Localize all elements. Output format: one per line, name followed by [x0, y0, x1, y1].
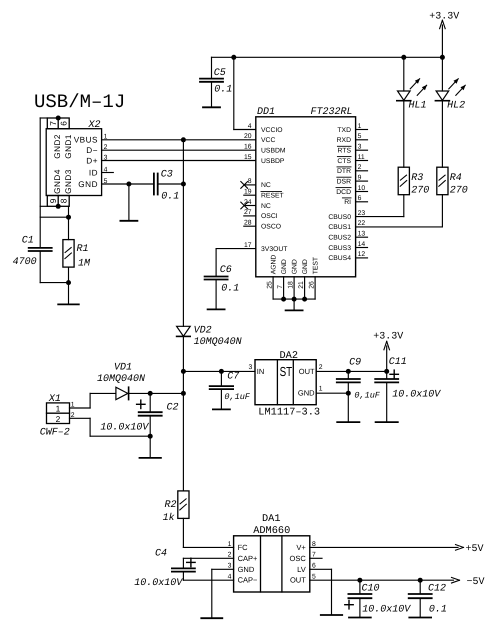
svg-text:USB/M–1J: USB/M–1J: [34, 91, 125, 113]
svg-text:0.1: 0.1: [221, 283, 239, 294]
wire C1 bottom: [39, 251, 41, 282]
svg-text:VCC: VCC: [261, 137, 275, 144]
svg-text:DA1: DA1: [262, 513, 281, 525]
wire C7 bottom: [220, 389, 222, 409]
wire C3 right to VBUS net: [158, 183, 184, 185]
wire HL2 to R4: [441, 101, 443, 168]
junction C9 DA2-GND: [346, 391, 351, 396]
svg-text:C5: C5: [214, 68, 226, 79]
svg-text:DA2: DA2: [280, 350, 299, 362]
svg-text:1: 1: [56, 404, 61, 414]
svg-text:GND: GND: [302, 259, 309, 274]
stub pin 1 TXD: [356, 129, 368, 131]
wire C4 bottom to CAP-: [182, 572, 184, 580]
junction VD1 C2: [148, 391, 153, 396]
junction pins 7-6 shell: [56, 116, 61, 121]
capacitor C9: [337, 378, 360, 380]
svg-text:270: 270: [450, 186, 468, 197]
svg-text:TXD: TXD: [337, 127, 351, 134]
svg-text:V+: V+: [296, 543, 306, 552]
svg-text:3: 3: [249, 364, 253, 371]
LED HL1 cathode bar: [397, 100, 411, 102]
svg-text:C12: C12: [428, 583, 446, 594]
wire GND drop to ground: [128, 184, 130, 221]
wire main node to R2: [182, 393, 184, 491]
svg-text:0,1uF: 0,1uF: [224, 392, 250, 402]
svg-text:GND4: GND4: [53, 169, 62, 194]
svg-text:3: 3: [228, 563, 232, 570]
svg-text:GND: GND: [78, 180, 98, 189]
svg-text:C2: C2: [167, 402, 179, 413]
capacitor C10 plus: [345, 604, 353, 606]
junction OUT C11: [384, 369, 389, 374]
LED HL2 cathode bar: [435, 100, 449, 102]
junction rail HL1: [401, 55, 406, 60]
svg-text:DTR: DTR: [337, 168, 351, 175]
svg-text:GND3: GND3: [64, 169, 73, 194]
svg-text:3: 3: [358, 144, 362, 151]
wire V+ to +5V: [310, 546, 458, 548]
svg-text:RXD: RXD: [337, 137, 351, 144]
svg-text:28: 28: [244, 220, 252, 227]
wire rail to HL1: [403, 57, 405, 91]
wire top rail +3.3V: [212, 56, 443, 58]
svg-text:5: 5: [312, 574, 316, 581]
wire shield horizontal: [40, 216, 68, 218]
capacitor C2: [139, 411, 162, 413]
capacitor C11 top lead: [386, 371, 388, 378]
junction GND C3 drop: [126, 182, 131, 187]
wire C5 bottom: [211, 82, 213, 107]
resistor R1: [63, 240, 74, 268]
diode VD2: [177, 326, 191, 336]
junction OUT C10: [357, 578, 362, 583]
svg-text:10.0x10V: 10.0x10V: [100, 423, 149, 434]
LED HL1 light arrows: [410, 79, 419, 89]
IC DA2 body: [255, 360, 316, 405]
junction R1 C1: [66, 280, 71, 285]
junction OUT C9: [346, 369, 351, 374]
svg-text:12: 12: [358, 251, 366, 258]
svg-text:NC: NC: [261, 203, 271, 210]
svg-text:27: 27: [244, 209, 252, 216]
svg-text:6: 6: [312, 563, 316, 570]
svg-text:GND: GND: [281, 259, 288, 274]
svg-text:FT232RL: FT232RL: [311, 107, 353, 118]
wire C10 bottom: [359, 599, 361, 618]
junction rail HL2: [440, 55, 445, 60]
ground LV: [321, 614, 342, 616]
svg-text:10.0x10V: 10.0x10V: [134, 578, 183, 589]
ground C5: [203, 106, 220, 108]
svg-text:D+: D+: [86, 156, 98, 165]
stub bottom pin 25: [272, 277, 274, 299]
capacitor C10: [348, 593, 371, 595]
svg-text:1k: 1k: [163, 512, 175, 524]
wire R2 to FC: [182, 518, 184, 547]
ground C9: [337, 421, 359, 423]
svg-text:2: 2: [56, 414, 61, 424]
stub pin 13 CBUS2: [356, 236, 368, 238]
svg-text:ST: ST: [280, 364, 293, 379]
svg-text:R4: R4: [450, 173, 462, 184]
svg-text:C3: C3: [161, 169, 173, 180]
svg-text:LM1117–3.3: LM1117–3.3: [258, 407, 320, 419]
svg-text:20: 20: [244, 133, 252, 140]
power +3.3V arrow mid: [386, 346, 388, 371]
svg-text:2: 2: [319, 364, 323, 371]
connector X1 body: [47, 403, 70, 424]
svg-text:CBUS1: CBUS1: [328, 224, 351, 231]
resistor R2: [178, 491, 189, 519]
wire collector to ground: [293, 299, 295, 310]
svg-text:RI: RI: [344, 199, 351, 206]
svg-text:C9: C9: [349, 358, 361, 369]
capacitor C7 top lead: [220, 371, 222, 385]
connector X2 shell left wire: [39, 118, 41, 248]
stub bottom pin 18: [293, 277, 295, 299]
svg-text:2: 2: [358, 164, 362, 171]
wire LV to ground: [310, 568, 332, 570]
svg-text:26: 26: [308, 281, 315, 289]
wire C2 bottom: [149, 416, 151, 458]
svg-text:ID: ID: [89, 168, 98, 177]
svg-text:CAP+: CAP+: [238, 554, 258, 563]
capacitor C2 plus: [137, 403, 145, 405]
power +3.3V arrow top: [441, 25, 443, 57]
svg-text:21: 21: [298, 281, 305, 289]
diode VD1: [116, 387, 128, 399]
stub bottom pin 7: [283, 277, 285, 299]
ground C10: [349, 617, 371, 619]
svg-text:+3.3V: +3.3V: [373, 331, 403, 342]
svg-text:23: 23: [358, 210, 366, 217]
svg-text:1M: 1M: [78, 258, 91, 269]
svg-text:13: 13: [358, 231, 366, 238]
junction shield R1: [66, 215, 71, 220]
svg-text:1: 1: [358, 123, 362, 130]
svg-text:HL2: HL2: [447, 101, 465, 112]
svg-text:−5V: −5V: [467, 577, 485, 588]
svg-text:DD1: DD1: [257, 107, 275, 118]
junction main node VD1: [181, 391, 186, 396]
IC DD1 FT232RL body: [256, 117, 356, 277]
wire VBUS net vertical down to VD2: [182, 140, 184, 326]
svg-text:0.1: 0.1: [214, 85, 232, 96]
stub pin 6 RI: [356, 201, 368, 203]
svg-text:10.0x10V: 10.0x10V: [392, 390, 441, 401]
junction pins 9-8 shell: [56, 204, 61, 209]
svg-text:10MQ040N: 10MQ040N: [97, 374, 145, 385]
wire rail to HL2: [441, 57, 443, 91]
wire CAP+ to C4: [183, 557, 233, 559]
wire ID stub: [102, 172, 114, 174]
svg-text:TEST: TEST: [313, 257, 320, 274]
wire OUT to -5V: [310, 579, 454, 581]
svg-text:RTS: RTS: [338, 148, 352, 155]
svg-text:C7: C7: [227, 372, 239, 383]
capacitor C4 plus: [187, 561, 195, 563]
capacitor C2 top lead: [149, 393, 151, 412]
junction gnd 21: [302, 297, 307, 302]
wire R1 bottom to ground: [68, 267, 70, 304]
junction C3 VBUS-net: [181, 182, 186, 187]
wire 3V3OUT: [216, 248, 256, 250]
svg-text:15: 15: [244, 154, 252, 161]
svg-text:+5V: +5V: [466, 544, 484, 555]
svg-text:4: 4: [248, 123, 252, 130]
svg-text:CTS: CTS: [337, 158, 351, 165]
ground GND pin5: [120, 220, 137, 222]
stub bottom pin 26: [314, 277, 316, 299]
svg-text:R2: R2: [164, 500, 176, 511]
capacitor C11 plus: [390, 373, 398, 375]
svg-text:7: 7: [312, 552, 316, 559]
stub pin 10 DCD: [356, 191, 368, 193]
svg-text:CBUS4: CBUS4: [328, 255, 351, 262]
junction VBUS vertical: [181, 137, 186, 142]
svg-text:4700: 4700: [13, 257, 37, 268]
svg-text:D−: D−: [86, 146, 98, 155]
wire GND pin5: [102, 183, 154, 185]
stub OSC pin7: [310, 557, 322, 559]
resistor R4: [437, 167, 448, 195]
junction IN node: [181, 369, 186, 374]
svg-text:IN: IN: [257, 367, 265, 376]
stub pin 19 RESET: [244, 194, 256, 196]
ground X2 network: [58, 303, 79, 305]
svg-text:CBUS3: CBUS3: [328, 245, 351, 252]
connector X2 pin7/6 box: [47, 118, 69, 129]
svg-text:GND2: GND2: [53, 134, 62, 159]
svg-text:9: 9: [358, 174, 362, 181]
svg-text:DSR: DSR: [337, 178, 351, 185]
svg-text:9: 9: [48, 198, 58, 203]
svg-text:GND1: GND1: [64, 134, 73, 159]
wire C12 bottom: [419, 599, 421, 618]
svg-text:0.1: 0.1: [161, 192, 179, 203]
stub pin NC with no-connect X: [244, 184, 256, 186]
svg-text:DCD: DCD: [336, 189, 351, 196]
capacitor C11: [375, 378, 398, 380]
svg-text:CBUS2: CBUS2: [328, 235, 351, 242]
junction gnd 7: [281, 297, 286, 302]
capacitor C5: [200, 78, 223, 80]
svg-text:0.1: 0.1: [429, 605, 447, 616]
svg-text:CBUS0: CBUS0: [328, 214, 351, 221]
ground DD1: [286, 309, 303, 311]
IC DA1 body: [234, 536, 310, 592]
ground C7: [213, 408, 230, 410]
svg-text:GND: GND: [298, 389, 315, 398]
svg-text:10.0x10V: 10.0x10V: [362, 605, 411, 616]
capacitor C10 top lead: [359, 580, 361, 594]
stub pin 5 RXD: [356, 139, 368, 141]
svg-text:8: 8: [59, 198, 69, 203]
connector X2 shell bottom wire: [40, 205, 47, 207]
svg-text:NC: NC: [261, 182, 271, 189]
svg-text:+3.3V: +3.3V: [429, 12, 459, 23]
wire C11 bottom to ground: [386, 383, 388, 422]
svg-text:OSCO: OSCO: [261, 224, 281, 231]
svg-text:8: 8: [248, 178, 252, 185]
resistor R3: [398, 167, 409, 195]
junction IN C7: [219, 369, 224, 374]
stub pin 2 DTR: [356, 170, 368, 172]
svg-text:VCCIO: VCCIO: [261, 127, 283, 134]
capacitor C6: [205, 276, 228, 278]
ground C12: [409, 617, 431, 619]
LED HL1 triangle: [398, 91, 411, 100]
wire R3 to CBUS0: [403, 195, 405, 217]
capacitor C7: [210, 385, 233, 387]
wire shield to R1 node: [68, 206, 70, 239]
svg-text:19: 19: [244, 189, 252, 196]
svg-text:C6: C6: [220, 265, 232, 276]
stub pin 28 OSCO: [244, 225, 256, 227]
svg-text:1: 1: [319, 386, 323, 393]
svg-text:7: 7: [48, 121, 58, 126]
svg-text:LV: LV: [297, 565, 306, 574]
ground C2: [140, 457, 161, 459]
svg-text:8: 8: [312, 541, 316, 548]
junction OUT C12: [418, 578, 423, 583]
stub bottom pin 21: [304, 277, 306, 299]
wire R4 to CBUS1: [441, 195, 443, 227]
ground C11: [376, 421, 398, 423]
svg-text:VD1: VD1: [114, 362, 132, 373]
wire X1 pin1 to VD1: [70, 407, 91, 409]
wire D- to USBDM: [102, 149, 256, 151]
wire DA2 GND: [316, 392, 348, 394]
svg-text:25: 25: [266, 281, 273, 289]
wire X1 pin2 loop: [70, 417, 91, 419]
svg-text:5: 5: [358, 133, 362, 140]
svg-text:FC: FC: [238, 543, 249, 552]
wire VCCIO to chip: [234, 129, 256, 131]
svg-text:HL1: HL1: [409, 101, 427, 112]
junction top rail VCCIO: [231, 55, 236, 60]
svg-text:7: 7: [277, 285, 284, 289]
stub pin 3 RTS: [356, 149, 368, 151]
power -5V arrow: [452, 577, 460, 580]
svg-text:16: 16: [244, 144, 252, 151]
svg-text:R1: R1: [77, 244, 89, 255]
wire VBUS to VCC: [102, 139, 256, 141]
svg-text:1: 1: [228, 541, 232, 548]
svg-text:C4: C4: [155, 548, 167, 559]
svg-text:22: 22: [358, 220, 366, 227]
svg-text:USBDM: USBDM: [261, 148, 286, 155]
capacitor C9 top lead: [347, 371, 349, 378]
wire D+ to USBDP: [102, 160, 256, 162]
svg-text:GND: GND: [238, 565, 255, 574]
svg-text:14: 14: [358, 241, 366, 248]
capacitor C1: [29, 247, 52, 249]
svg-text:6: 6: [59, 121, 69, 126]
stub pin 9 DSR: [356, 180, 368, 182]
svg-text:CAP−: CAP−: [238, 576, 258, 585]
connector X2 pin9/8 box: [47, 196, 69, 207]
svg-text:GND: GND: [292, 259, 299, 274]
svg-text:OUT: OUT: [299, 367, 315, 376]
svg-text:10MQ040N: 10MQ040N: [194, 337, 242, 348]
wire OUT rail: [316, 370, 387, 372]
LED HL2 triangle: [436, 91, 449, 100]
svg-text:0,1uF: 0,1uF: [354, 391, 380, 401]
svg-text:3V3OUT: 3V3OUT: [261, 246, 287, 253]
wire VCCIO riser: [233, 57, 235, 129]
svg-text:OSCI: OSCI: [261, 213, 278, 220]
capacitor C12 top lead: [419, 580, 421, 594]
stub pin 14 CBUS3: [356, 247, 368, 249]
junction gnd 18: [292, 297, 297, 302]
svg-text:18: 18: [287, 281, 294, 289]
svg-text:C1: C1: [22, 236, 34, 247]
LED HL2 light arrows: [449, 79, 458, 89]
wire VD1 to main node: [129, 392, 184, 394]
stub pin 27 OSCI: [244, 215, 256, 217]
capacitor C5 lead: [211, 57, 213, 78]
svg-text:270: 270: [411, 186, 429, 197]
svg-text:C11: C11: [389, 357, 407, 368]
svg-text:RESET: RESET: [261, 193, 284, 200]
svg-text:2: 2: [228, 552, 232, 559]
svg-text:10: 10: [358, 185, 366, 192]
capacitor C12: [409, 593, 432, 595]
connector X2 shell top wire: [40, 117, 47, 119]
ground DA1 GND: [201, 617, 222, 619]
stub pin 11 CTS: [356, 160, 368, 162]
power +5V arrow: [456, 545, 464, 548]
ground C6: [208, 308, 225, 310]
wire C6 bottom: [215, 280, 217, 309]
stub pin 12 CBUS4: [356, 257, 368, 259]
svg-text:CWF–2: CWF–2: [40, 427, 70, 438]
svg-text:VD2: VD2: [194, 326, 212, 337]
stub pin NC with no-connect X: [244, 205, 256, 207]
wire IN to DA2: [183, 370, 255, 372]
wire DA1 GND to ground: [212, 568, 234, 570]
svg-text:11: 11: [358, 154, 365, 161]
capacitor C3 (vertical plates): [153, 174, 155, 195]
connector X2 body: [46, 129, 101, 196]
capacitor C4: [172, 567, 195, 569]
svg-text:4: 4: [228, 574, 232, 581]
svg-text:17: 17: [244, 242, 252, 249]
svg-text:OSC: OSC: [290, 554, 307, 563]
svg-text:OUT: OUT: [290, 576, 306, 585]
wire VD2 to IN node: [182, 336, 184, 393]
svg-text:AGND: AGND: [271, 255, 278, 275]
svg-text:X2: X2: [88, 120, 101, 131]
wire HL1 to R3: [403, 101, 405, 168]
wire ground collector under DD1: [273, 298, 315, 300]
wire C9 bottom to ground: [347, 383, 349, 422]
svg-text:ADM660: ADM660: [253, 525, 290, 537]
svg-text:USBDP: USBDP: [261, 158, 285, 165]
junction C2 pin2 wire: [148, 434, 153, 439]
svg-text:R3: R3: [411, 173, 423, 184]
svg-text:VBUS: VBUS: [74, 136, 98, 145]
svg-text:C10: C10: [362, 583, 380, 594]
svg-text:6: 6: [358, 195, 362, 202]
